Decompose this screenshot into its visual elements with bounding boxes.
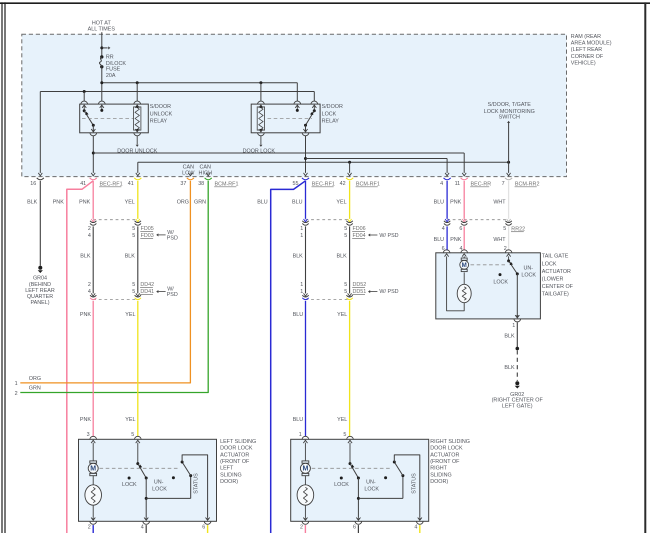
svg-text:5: 5 — [131, 432, 134, 438]
node: branch junction with right stub arrow — [100, 46, 110, 49]
svg-text:PSD: PSD — [167, 235, 178, 241]
svg-text:RELAY: RELAY — [322, 119, 340, 125]
svg-text:BLU: BLU — [292, 200, 303, 206]
wire WHT pin 7 to connector RR22 — [508, 181, 510, 219]
svg-text:38: 38 — [198, 181, 204, 187]
svg-text:ORG: ORG — [177, 200, 189, 206]
svg-text:GR04: GR04 — [33, 276, 47, 282]
svg-text:UN-: UN- — [154, 480, 164, 486]
svg-text:6: 6 — [353, 524, 356, 530]
svg-text:ALL TIMES: ALL TIMES — [88, 27, 116, 33]
svg-text:LOCK: LOCK — [493, 279, 508, 285]
wire YEL pin 41 to in-line connector — [137, 181, 139, 219]
switch: tailgate lock position switch — [493, 256, 536, 317]
label: HOT AT ALL TIMES — [88, 20, 116, 32]
svg-text:UN-: UN- — [524, 265, 534, 271]
wire BLK segments between FD and DD connectors (right) — [293, 226, 350, 293]
svg-text:BLK: BLK — [336, 254, 347, 260]
svg-text:RIGHT SLIDING: RIGHT SLIDING — [430, 439, 470, 445]
svg-text:42: 42 — [340, 181, 346, 187]
motor M door lock — [88, 443, 98, 476]
svg-text:ORG: ORG — [29, 376, 41, 382]
wire: lock relay coil control stub DOOR LOCK — [243, 136, 276, 155]
switch: door lock STATUS switch — [358, 455, 421, 521]
svg-text:5: 5 — [132, 233, 135, 239]
wire YEL pin 42 to in-line connector — [349, 181, 351, 219]
wire: bus from fuse feeding relay coils and lock relay common — [100, 81, 297, 101]
svg-text:2: 2 — [15, 391, 18, 397]
connector pins at door box bottom — [300, 518, 423, 531]
svg-text:WHT: WHT — [493, 200, 506, 206]
label: CAN LOW / CAN HIGH — [182, 164, 212, 176]
wire PNK pin 41 branch (bypass to bottom of page) — [67, 181, 93, 533]
svg-text:5: 5 — [503, 226, 506, 232]
switch: S/DOOR T/GATE LOCK MONITORING SWITCH stub — [484, 102, 535, 173]
svg-text:6: 6 — [459, 226, 462, 232]
wire BLU pin 4 to connector RR22 — [446, 181, 448, 219]
svg-text:UN-: UN- — [366, 480, 376, 486]
svg-text:BLU: BLU — [434, 237, 445, 243]
in-line connector DD42/DD41 — [88, 282, 178, 300]
svg-text:TAILGATE): TAILGATE) — [542, 291, 569, 297]
svg-text:SWITCH: SWITCH — [499, 115, 520, 121]
wire: unlock relay output to pin 41 and pin 11 (line A) — [92, 136, 464, 173]
label: door actuator title — [220, 439, 256, 485]
connector pins at door box top — [299, 432, 354, 443]
label: RAM (REAR AREA MODULE) (LEFT REAR CORNER OF VEHICLE) — [571, 34, 612, 67]
in-line connector FD05/FD03 (left sliding door harness) — [88, 219, 178, 241]
wire GRN CAN HIGH routed to left edge — [20, 181, 208, 393]
switch: door lock STATUS switch — [146, 455, 209, 521]
wire: tailgate common return inside box — [447, 256, 465, 310]
in-line connector RR22 (tailgate harness) — [442, 219, 525, 232]
svg-text:W/ PSD: W/ PSD — [379, 289, 398, 295]
module tailgate lock actuator box — [436, 253, 541, 319]
svg-text:LOCK: LOCK — [542, 261, 557, 267]
svg-text:1: 1 — [299, 432, 302, 438]
wire: fuse output down to relay 1 pin — [101, 67, 103, 101]
wire: lock relay output to pin 55 and branch to pin 4 (line A2) — [304, 136, 447, 173]
svg-text:YEL: YEL — [125, 200, 135, 206]
svg-text:1: 1 — [300, 282, 303, 288]
svg-text:S/DOOR: S/DOOR — [150, 104, 171, 110]
mechanical link dashes door — [312, 467, 391, 469]
svg-text:BLK: BLK — [504, 365, 515, 371]
wire BLU from DD connector to right door actuator pin 1 — [293, 301, 306, 437]
svg-text:2: 2 — [88, 524, 91, 530]
wire BLU RR22 to tailgate actuator pin 6 — [434, 226, 448, 252]
wire PNK pin 41 to in-line connector — [92, 181, 94, 219]
connector pin 1 at tailgate box bottom — [512, 315, 520, 329]
svg-text:7: 7 — [502, 181, 505, 187]
wire YEL from DD connector to left door actuator pin 5 — [125, 301, 138, 437]
svg-text:QUARTER: QUARTER — [27, 294, 53, 300]
svg-text:LEFT REAR: LEFT REAR — [25, 288, 55, 294]
connector pins at door box bottom — [88, 518, 211, 531]
svg-text:YEL: YEL — [337, 417, 347, 423]
wire BLK splice to ground GR02 (dashed) — [504, 350, 517, 381]
ground GR02 (RIGHT CENTER OF LEFT GATE) — [492, 381, 544, 409]
svg-text:PNK: PNK — [450, 200, 461, 206]
svg-text:1: 1 — [512, 323, 515, 329]
svg-text:GRN: GRN — [194, 200, 206, 206]
svg-text:BLU: BLU — [434, 200, 445, 206]
svg-text:55: 55 — [293, 181, 299, 187]
svg-text:STATUS: STATUS — [411, 473, 417, 494]
wire stubs below door box — [305, 525, 419, 533]
svg-text:CAN: CAN — [200, 164, 211, 170]
svg-text:20A: 20A — [106, 73, 116, 79]
svg-text:BLU: BLU — [257, 200, 268, 206]
svg-text:GRN: GRN — [29, 386, 41, 392]
switch: door lock/unlock switch — [334, 443, 387, 521]
svg-text:CAN: CAN — [183, 164, 194, 170]
svg-text:37: 37 — [180, 181, 186, 187]
svg-text:CENTER OF: CENTER OF — [542, 284, 574, 290]
svg-text:LOCK: LOCK — [152, 486, 167, 492]
fuse RR D/LOCK FUSE 20A — [99, 54, 126, 79]
svg-text:4: 4 — [88, 233, 91, 239]
svg-text:PNK: PNK — [53, 200, 64, 206]
svg-text:BLK: BLK — [80, 254, 91, 260]
wire BLU pin 55 branch (bypass to bottom of page) — [271, 181, 306, 533]
svg-text:PSD: PSD — [167, 292, 178, 298]
connector pin 38 BCM-RF1 at RAM border — [198, 173, 238, 188]
svg-text:(LOWER: (LOWER — [542, 276, 564, 282]
mechanical link dashes door — [100, 467, 179, 469]
svg-text:SLIDING: SLIDING — [220, 472, 242, 478]
svg-text:3: 3 — [87, 432, 90, 438]
svg-text:LEFT: LEFT — [220, 466, 234, 472]
svg-text:(BEHIND: (BEHIND — [29, 282, 51, 288]
svg-text:5: 5 — [343, 432, 346, 438]
svg-text:RAM (REAR: RAM (REAR — [571, 34, 601, 40]
connector pins at door box top — [87, 432, 142, 443]
svg-text:WHT: WHT — [493, 237, 506, 243]
svg-text:M: M — [90, 466, 96, 473]
svg-text:LOCK: LOCK — [322, 111, 337, 117]
module RIGHT SLIDING DOOR LOCK ACTUATOR — [291, 439, 429, 521]
svg-text:AREA MODULE): AREA MODULE) — [571, 40, 612, 46]
connector pin 41 at RAM border — [128, 173, 142, 187]
connector pin 16 at RAM border — [30, 173, 44, 187]
svg-text:BLK: BLK — [125, 254, 136, 260]
connector pins at tailgate box top — [443, 250, 512, 257]
svg-text:M: M — [462, 262, 467, 269]
svg-text:RELAY: RELAY — [150, 119, 168, 125]
svg-text:DOOR): DOOR) — [220, 479, 238, 485]
svg-text:1: 1 — [300, 289, 303, 295]
svg-text:PNK: PNK — [80, 417, 91, 423]
wire BLK pin 16 to ground GR04 — [39, 181, 41, 266]
svg-text:SLIDING: SLIDING — [430, 472, 452, 478]
connector pin 11 BEC-RR at RAM border — [455, 173, 492, 188]
svg-text:M: M — [302, 466, 308, 473]
svg-text:(FRONT OF: (FRONT OF — [430, 459, 460, 465]
svg-text:4: 4 — [442, 226, 445, 232]
wire PNK from DD connector to left door actuator pin 3 — [80, 301, 93, 437]
resistor: door motor thermal limiter — [85, 476, 102, 518]
svg-text:S/DOOR: S/DOOR — [322, 104, 343, 110]
svg-text:5: 5 — [344, 226, 347, 232]
wire WHT RR22 to tailgate actuator pin 2 — [493, 226, 508, 252]
wire PNK RR22 to tailgate actuator pin 4 — [450, 226, 464, 252]
svg-text:41: 41 — [80, 181, 86, 187]
svg-text:TAIL GATE: TAIL GATE — [542, 254, 569, 260]
svg-text:UNLOCK: UNLOCK — [150, 111, 173, 117]
svg-text:6: 6 — [202, 524, 205, 530]
connector pin 41 BEC-RF1 at RAM border — [80, 173, 122, 188]
svg-text:PNK: PNK — [450, 237, 461, 243]
svg-text:LOCK: LOCK — [364, 486, 379, 492]
svg-text:2: 2 — [88, 282, 91, 288]
svg-text:16: 16 — [30, 181, 36, 187]
svg-text:(LEFT REAR: (LEFT REAR — [571, 47, 602, 53]
wire PNK pin 11 to connector RR22 — [463, 181, 465, 219]
wire BLU pin 55 to in-line connector — [305, 181, 307, 219]
svg-text:DOOR LOCK: DOOR LOCK — [220, 446, 253, 452]
svg-text:FUSE: FUSE — [106, 67, 121, 73]
connector pin 7 BCM-RR2 at RAM border — [502, 173, 540, 188]
svg-text:4: 4 — [141, 524, 144, 530]
svg-text:YEL: YEL — [125, 417, 135, 423]
svg-text:RIGHT: RIGHT — [430, 466, 447, 472]
module LEFT SLIDING DOOR LOCK ACTUATOR — [79, 439, 217, 521]
svg-text:5: 5 — [132, 226, 135, 232]
wire: lock sense bus linking pins 41, 42 and 7 (line B) — [138, 161, 510, 173]
in-line connector DD52/DD51 — [300, 282, 398, 300]
svg-text:DOOR LOCK: DOOR LOCK — [430, 446, 463, 452]
svg-text:PNK: PNK — [79, 200, 90, 206]
svg-text:4: 4 — [88, 289, 91, 295]
svg-text:BLK: BLK — [293, 254, 304, 260]
motor M tailgate lock — [460, 256, 469, 271]
svg-text:11: 11 — [455, 181, 461, 187]
svg-text:S/DOOR, T/GATE: S/DOOR, T/GATE — [488, 102, 532, 108]
svg-text:PANEL): PANEL) — [30, 300, 49, 306]
svg-text:5: 5 — [344, 233, 347, 239]
svg-text:LOCK: LOCK — [122, 482, 137, 488]
svg-text:PNK: PNK — [80, 312, 91, 318]
svg-text:1: 1 — [300, 233, 303, 239]
wire YEL from DD connector to right door actuator pin 5 — [337, 301, 350, 437]
relay K1 S/DOOR UNLOCK RELAY — [80, 101, 173, 136]
svg-text:5: 5 — [132, 289, 135, 295]
connector pin 37 at RAM border — [180, 173, 194, 187]
svg-text:LOCK: LOCK — [521, 272, 536, 278]
svg-text:VEHICLE): VEHICLE) — [571, 60, 596, 66]
svg-text:BLK: BLK — [504, 334, 515, 340]
svg-text:5: 5 — [344, 282, 347, 288]
svg-text:41: 41 — [128, 181, 134, 187]
svg-text:BLK: BLK — [27, 200, 38, 206]
svg-text:W/ PSD: W/ PSD — [379, 233, 398, 239]
svg-text:LEFT GATE): LEFT GATE) — [502, 404, 533, 410]
switch: door lock/unlock switch — [122, 443, 175, 521]
relay K2 S/DOOR LOCK RELAY — [251, 101, 343, 136]
svg-text:4: 4 — [414, 524, 417, 530]
in-line connector FD06/FD04 (right sliding door harness) — [300, 219, 398, 239]
svg-text:ACTUATOR: ACTUATOR — [430, 452, 459, 458]
resistor: door motor thermal limiter — [297, 476, 314, 518]
svg-text:RR: RR — [106, 54, 114, 60]
svg-text:2: 2 — [88, 226, 91, 232]
wire BLK segments between FD and DD connectors (left) — [80, 226, 138, 293]
labels: wire colors below RAM connector — [27, 200, 506, 206]
svg-text:4: 4 — [440, 181, 443, 187]
svg-text:2: 2 — [300, 524, 303, 530]
mechanical link dashes tailgate — [471, 264, 506, 266]
svg-text:STATUS: STATUS — [194, 473, 200, 494]
svg-text:5: 5 — [344, 289, 347, 295]
svg-text:YEL: YEL — [125, 312, 135, 318]
connector pin 4 at RAM border — [440, 173, 451, 187]
wire: ground bus to relay switch pins and pin 16 — [40, 90, 314, 173]
resistor: tailgate motor thermal limiter — [457, 272, 471, 302]
svg-text:ACTUATOR: ACTUATOR — [542, 269, 571, 275]
svg-text:DOOR): DOOR) — [430, 479, 448, 485]
module RAM (rear area module) dashed box — [22, 34, 567, 176]
svg-text:LEFT SLIDING: LEFT SLIDING — [220, 439, 256, 445]
svg-text:HOT AT: HOT AT — [92, 20, 112, 26]
connector pin 55 BEC-RF1 at RAM border — [293, 173, 335, 188]
ground GR04 (BEHIND LEFT REAR QUARTER PANEL) — [25, 266, 55, 306]
svg-text:1: 1 — [300, 226, 303, 232]
label: door actuator title — [430, 439, 470, 485]
svg-text:CORNER OF: CORNER OF — [571, 54, 604, 60]
wire: unlock relay coil control stub DOOR UNLOCK — [117, 136, 158, 155]
svg-text:1: 1 — [15, 381, 18, 387]
svg-text:(FRONT OF: (FRONT OF — [220, 459, 250, 465]
svg-text:ACTUATOR: ACTUATOR — [220, 452, 249, 458]
svg-text:BLU: BLU — [293, 417, 304, 423]
motor M door lock — [300, 443, 310, 476]
wire stubs below door box — [93, 525, 207, 533]
wire BLK tailgate pin 1 to splice — [504, 322, 519, 350]
svg-text:LOCK: LOCK — [334, 482, 349, 488]
svg-text:BLU: BLU — [293, 312, 304, 318]
svg-text:5: 5 — [132, 282, 135, 288]
label: TAIL GATE LOCK ACTUATOR (LOWER CENTER OF TAILGATE) — [542, 254, 574, 298]
connector pin 42 BCM-RF1 at RAM border — [340, 173, 380, 188]
svg-text:YEL: YEL — [337, 312, 347, 318]
svg-text:YEL: YEL — [336, 200, 346, 206]
wire: battery feed from HOT AT ALL TIMES down to fuse — [101, 32, 103, 57]
wire ORG CAN LOW routed to left edge — [20, 181, 190, 383]
